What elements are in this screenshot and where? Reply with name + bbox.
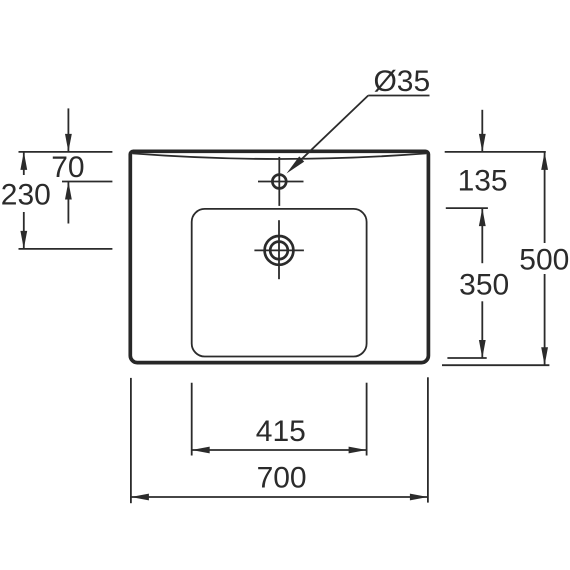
label 230 <box>1 179 51 212</box>
extension line basin right bottom <box>427 377 429 502</box>
dimension 135 arrow <box>479 110 486 152</box>
extension line top edge right <box>445 151 546 153</box>
svg-text:Ø35: Ø35 <box>373 65 430 98</box>
extension line basin left bottom <box>130 378 132 503</box>
drain inner circle <box>270 242 288 260</box>
svg-text:70: 70 <box>51 151 84 184</box>
svg-text:230: 230 <box>1 179 51 212</box>
inner bowl rounded rectangle <box>192 209 367 357</box>
faucet hole crosshair <box>258 157 304 206</box>
extension line bowl left bottom <box>191 383 193 456</box>
dimension 700 line and arrows <box>131 494 428 501</box>
extension line bowl bottom right <box>447 357 486 359</box>
label 70 <box>51 151 84 184</box>
svg-text:350: 350 <box>459 268 509 301</box>
dimension 70 arrows <box>65 108 72 223</box>
basin outer outline <box>130 151 428 362</box>
back ledge curve <box>132 153 426 159</box>
label 350 <box>459 268 509 301</box>
leader line Ø35 <box>287 96 430 174</box>
label 700 <box>257 462 307 495</box>
svg-text:415: 415 <box>256 415 306 448</box>
dimension 230 arrows <box>20 152 27 249</box>
extension line bowl top right <box>446 207 488 209</box>
svg-text:700: 700 <box>257 462 307 495</box>
svg-text:135: 135 <box>458 165 508 198</box>
label Ø35 <box>373 65 430 98</box>
faucet hole circle <box>272 175 286 189</box>
drain crosshair <box>254 220 304 279</box>
drain outer circle <box>265 236 294 265</box>
extension line basin bottom right <box>442 364 549 366</box>
extension line bowl right bottom <box>366 383 368 456</box>
extension line top edge left <box>19 151 113 153</box>
dimension 415 line and arrows <box>192 447 367 454</box>
label 415 <box>256 415 306 448</box>
svg-text:500: 500 <box>519 243 569 276</box>
label 135 <box>458 165 508 198</box>
extension line faucet axis left <box>62 181 112 183</box>
dimension 350 arrows <box>479 208 486 358</box>
label 500 <box>519 243 569 276</box>
extension line drain axis left <box>19 248 113 250</box>
dimension 500 arrows <box>541 152 548 365</box>
